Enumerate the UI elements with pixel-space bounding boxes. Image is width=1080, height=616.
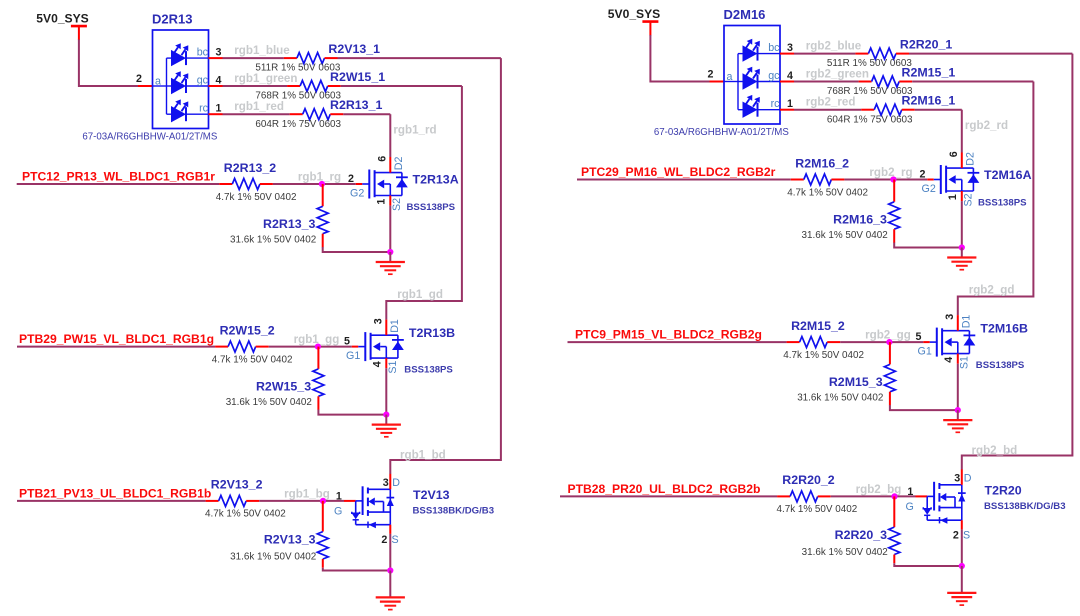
wire LED row to resistor [794, 109, 861, 111]
svg-text:R2M16_1: R2M16_1 [902, 94, 956, 108]
resistor R2M15_1 [859, 76, 913, 87]
svg-text:T2R13B: T2R13B [409, 326, 455, 340]
wire node to ground [385, 415, 387, 425]
svg-text:rgb1_red: rgb1_red [234, 100, 284, 113]
svg-text:2: 2 [136, 73, 142, 85]
wire net rgb2_gd vertical [958, 82, 1034, 316]
junction source-gnd [955, 407, 961, 413]
svg-text:rgb2_rg: rgb2_rg [869, 166, 912, 179]
svg-text:5V0_SYS: 5V0_SYS [36, 12, 88, 26]
junction rgb2_bg [891, 493, 897, 499]
svg-text:rgb2_gd: rgb2_gd [969, 283, 1015, 296]
svg-text:S: S [963, 530, 970, 542]
svg-text:BSS138PS: BSS138PS [976, 360, 1025, 371]
svg-text:1: 1 [376, 199, 388, 205]
svg-text:R2M15_1: R2M15_1 [902, 65, 956, 79]
svg-text:rgb1_bd: rgb1_bd [400, 449, 446, 462]
drain pin of T2M16B [957, 315, 959, 331]
wire LED row to resistor [223, 85, 288, 87]
junction source-gnd [383, 412, 389, 418]
svg-text:604R 1% 75V 0603: 604R 1% 75V 0603 [827, 114, 913, 125]
svg-text:31.6k 1% 50V 0402: 31.6k 1% 50V 0402 [230, 235, 316, 246]
svg-text:R2W15_2: R2W15_2 [220, 324, 275, 338]
source pin of T2V13 [389, 525, 391, 534]
junction source-gnd [959, 244, 965, 250]
svg-text:T2R13A: T2R13A [413, 173, 459, 187]
transistor T2R20 body [916, 469, 966, 529]
transistor T2R13A body [356, 157, 408, 206]
svg-text:4: 4 [943, 357, 955, 363]
wire node to ground [961, 248, 963, 258]
svg-text:R2W15_1: R2W15_1 [330, 70, 385, 84]
svg-text:T2M16A: T2M16A [984, 168, 1032, 182]
LED D2M16 element 3 [743, 95, 781, 118]
svg-text:rgb1_rg: rgb1_rg [298, 170, 341, 183]
svg-text:rgb1_blue: rgb1_blue [234, 44, 290, 57]
wire power to LED pin 2 [79, 40, 138, 87]
source pin of T2R13A [389, 196, 391, 206]
svg-text:2: 2 [348, 173, 354, 185]
svg-text:rc: rc [771, 98, 781, 110]
wire source to ground node [389, 206, 391, 252]
svg-text:R2V13_1: R2V13_1 [328, 42, 380, 56]
svg-text:PTB29_PW15_VL_BLDC1_RGB1g: PTB29_PW15_VL_BLDC1_RGB1g [19, 332, 214, 346]
svg-text:bc: bc [197, 47, 209, 59]
ground T2M16A [947, 258, 976, 270]
wire pulldown to source node [890, 405, 958, 410]
ground T2R13B [372, 425, 401, 437]
pin stub of D2R13 [209, 85, 223, 87]
svg-text:bc: bc [768, 42, 780, 54]
source pin of T2R13B [385, 358, 387, 368]
svg-text:1: 1 [907, 486, 913, 498]
wire R2M15_1 to drain column [912, 81, 1033, 83]
svg-text:PTB28_PR20_UL_BLDC2_RGB2b: PTB28_PR20_UL_BLDC2_RGB2b [568, 482, 761, 496]
svg-text:4.7k 1% 50V 0402: 4.7k 1% 50V 0402 [787, 187, 868, 198]
LED D2R13 element 2 [171, 71, 209, 94]
wire source to ground node [385, 368, 387, 414]
power symbol 5V0_SYS PWR-L [36, 12, 88, 40]
junction source-gnd [387, 567, 393, 573]
svg-text:rgb2_bd: rgb2_bd [972, 444, 1018, 457]
source pin of T2M16B [957, 354, 959, 364]
svg-text:rgb2_blue: rgb2_blue [806, 40, 862, 53]
wire net rgb2_bd vertical [962, 54, 1073, 470]
resistor R2R13_2 [219, 179, 273, 190]
svg-text:D: D [964, 472, 972, 484]
svg-text:rgb1_rd: rgb1_rd [393, 123, 436, 136]
ground T2R13A [376, 262, 405, 274]
wire node to ground [961, 566, 963, 593]
svg-text:R2R13_1: R2R13_1 [330, 98, 382, 112]
resistor R2M16_1 [861, 104, 915, 115]
wire node to ground [389, 571, 391, 598]
wire LED row to resistor [794, 81, 859, 83]
svg-text:1: 1 [947, 194, 959, 200]
LED D2M16 element 1 [743, 39, 781, 62]
svg-text:4.7k 1% 50V 0402: 4.7k 1% 50V 0402 [783, 350, 864, 361]
svg-text:PTB21_PV13_UL_BLDC1_RGB1b: PTB21_PV13_UL_BLDC1_RGB1b [19, 486, 211, 500]
svg-text:PTC12_PR13_WL_BLDC1_RGB1r: PTC12_PR13_WL_BLDC1_RGB1r [22, 169, 215, 183]
wire net rgb1_bd vertical [390, 58, 501, 474]
resistor R2W15_2 [215, 341, 269, 352]
svg-text:D2: D2 [965, 152, 977, 166]
svg-text:S: S [392, 534, 399, 546]
svg-text:4.7k 1% 50V 0402: 4.7k 1% 50V 0402 [777, 504, 858, 515]
wire pulldown to source node [318, 410, 386, 415]
junction rgb2_rg [890, 176, 896, 182]
wire net rgb1_rd vertical [389, 114, 391, 157]
svg-text:R2R20_1: R2R20_1 [900, 38, 952, 52]
pin stub of D2M16 [780, 109, 794, 111]
svg-text:604R 1% 75V 0603: 604R 1% 75V 0603 [255, 119, 341, 130]
wire input to resistor R2M15_2 [568, 341, 787, 343]
source pin of T2R20 [961, 520, 963, 529]
wire resistor to gate [269, 346, 352, 348]
svg-text:6: 6 [948, 151, 960, 157]
svg-text:BSS138BK/DG/B3: BSS138BK/DG/B3 [413, 505, 495, 516]
wire input to resistor R2R20_2 [560, 495, 777, 497]
wire net rgb2_rd vertical [961, 110, 963, 153]
drain pin of T2R13A [389, 157, 391, 173]
svg-text:R2M15_2: R2M15_2 [791, 319, 845, 333]
resistor R2R20_2 [777, 491, 831, 502]
svg-text:3: 3 [944, 314, 956, 320]
pin 2 stub of D2R13 [138, 85, 153, 87]
svg-text:PTC29_PM16_WL_BLDC2_RGB2r: PTC29_PM16_WL_BLDC2_RGB2r [581, 165, 776, 179]
resistor R2M15_2 [787, 337, 841, 348]
drain pin of T2R20 [961, 469, 963, 484]
drain pin of T2R13B [385, 320, 387, 336]
pin stub of D2M16 [780, 81, 794, 83]
junction rgb1_gg [315, 344, 321, 350]
svg-text:D2: D2 [393, 156, 405, 170]
svg-text:BSS138BK/DG/B3: BSS138BK/DG/B3 [984, 501, 1066, 512]
svg-text:rgb2_green: rgb2_green [806, 67, 869, 80]
svg-text:67-03A/R6GHBHW-A01/2T/MS: 67-03A/R6GHBHW-A01/2T/MS [654, 127, 789, 138]
svg-text:D: D [392, 477, 400, 489]
resistor R2W15_3 [313, 347, 324, 410]
svg-text:R2R13_2: R2R13_2 [224, 161, 276, 175]
wire net rgb1_gd vertical [386, 86, 462, 320]
transistor T2R13B body [352, 320, 404, 369]
svg-text:a: a [727, 71, 733, 83]
svg-text:T2R20: T2R20 [985, 484, 1022, 498]
svg-text:D2R13: D2R13 [152, 12, 192, 27]
svg-text:D2M16: D2M16 [724, 7, 766, 22]
junction rgb2_gg [886, 339, 892, 345]
pin stub of D2R13 [209, 113, 223, 115]
svg-text:1: 1 [336, 491, 342, 503]
junction source-gnd [959, 563, 965, 569]
svg-text:rgb2_red: rgb2_red [806, 96, 856, 109]
wire node to ground [389, 252, 391, 262]
svg-text:3: 3 [787, 42, 793, 54]
LED package D2M16 body [724, 26, 780, 125]
svg-text:S2: S2 [963, 193, 975, 206]
ground T2V13 [376, 597, 405, 609]
transistor T2M16B body [923, 315, 975, 364]
svg-text:rc: rc [199, 103, 209, 115]
wire input to resistor R2M16_2 [577, 179, 791, 181]
wire R2R20_1 to drain column [909, 53, 1072, 55]
wire R2W15_1 to drain column [341, 85, 462, 87]
svg-text:6: 6 [377, 156, 389, 162]
source pin of T2M16A [961, 191, 963, 201]
svg-text:R2M15_3: R2M15_3 [829, 375, 883, 389]
svg-text:G: G [334, 506, 342, 518]
LED D2R13 element 1 [171, 43, 209, 66]
svg-text:S1: S1 [959, 356, 971, 369]
resistor R2R20_3 [889, 496, 900, 563]
svg-text:D1: D1 [389, 319, 401, 333]
svg-text:G1: G1 [346, 350, 360, 362]
wire LED row to resistor [223, 113, 290, 115]
svg-text:2: 2 [381, 534, 387, 546]
svg-text:3: 3 [954, 472, 960, 484]
svg-text:3: 3 [373, 318, 385, 324]
wire source to ground node [961, 201, 963, 247]
svg-text:G1: G1 [918, 345, 932, 357]
junction rgb1_rg [319, 181, 325, 187]
pin stub of D2M16 [780, 53, 794, 55]
wire R2R13_1 to drain column [343, 113, 390, 115]
svg-text:1: 1 [787, 98, 793, 110]
svg-text:R2V13_3: R2V13_3 [264, 533, 316, 547]
resistor R2M15_3 [884, 342, 895, 405]
svg-text:S2: S2 [391, 198, 403, 211]
svg-text:67-03A/R6GHBHW-A01/2T/MS: 67-03A/R6GHBHW-A01/2T/MS [82, 132, 217, 143]
drain pin of T2M16A [961, 153, 963, 169]
wire pulldown to source node [323, 247, 391, 252]
ground T2M16B [943, 420, 972, 432]
svg-text:4.7k 1% 50V 0402: 4.7k 1% 50V 0402 [205, 508, 286, 519]
svg-text:R2M16_2: R2M16_2 [795, 157, 849, 171]
svg-text:31.6k 1% 50V 0402: 31.6k 1% 50V 0402 [226, 397, 312, 408]
svg-text:5: 5 [916, 331, 922, 343]
svg-text:S1: S1 [387, 360, 399, 373]
wire resistor to gate [259, 500, 344, 502]
wire input to resistor R2W15_2 [17, 346, 215, 348]
svg-text:4: 4 [372, 361, 384, 367]
resistor R2V13_3 [317, 501, 328, 568]
svg-text:BSS138PS: BSS138PS [404, 365, 453, 376]
wire resistor to gate [273, 183, 356, 185]
resistor R2R20_1 [855, 48, 909, 59]
svg-text:4: 4 [787, 70, 793, 82]
power symbol 5V0_SYS PWR-R [608, 7, 660, 35]
svg-text:rgb1_gd: rgb1_gd [397, 288, 443, 301]
drain pin of T2V13 [389, 474, 391, 489]
svg-text:31.6k 1% 50V 0402: 31.6k 1% 50V 0402 [802, 547, 888, 558]
wire pulldown to source node [894, 563, 962, 566]
svg-text:R2W15_3: R2W15_3 [256, 380, 311, 394]
svg-text:R2R20_2: R2R20_2 [782, 473, 834, 487]
wire source to ground node [961, 529, 963, 566]
svg-text:1: 1 [216, 103, 222, 115]
svg-text:4.7k 1% 50V 0402: 4.7k 1% 50V 0402 [216, 192, 297, 203]
transistor T2V13 body [344, 474, 394, 534]
svg-text:gc: gc [768, 70, 780, 82]
wire pulldown to source node [894, 243, 962, 248]
svg-text:R2R13_3: R2R13_3 [263, 217, 315, 231]
svg-text:PTC9_PM15_VL_BLDC2_RGB2g: PTC9_PM15_VL_BLDC2_RGB2g [575, 328, 762, 342]
wire resistor to gate [831, 495, 916, 497]
transistor T2M16A body [927, 153, 979, 202]
wire node to ground [957, 410, 959, 420]
svg-text:T2V13: T2V13 [413, 488, 450, 502]
LED D2M16 element 2 [743, 67, 781, 90]
svg-text:5V0_SYS: 5V0_SYS [608, 7, 660, 21]
junction rgb1_bg [320, 498, 326, 504]
resistor R2M16_2 [791, 174, 845, 185]
svg-text:31.6k 1% 50V 0402: 31.6k 1% 50V 0402 [230, 552, 316, 563]
svg-text:2: 2 [920, 168, 926, 180]
wire input to resistor R2V13_2 [17, 500, 206, 502]
svg-text:BSS138PS: BSS138PS [407, 202, 456, 213]
svg-text:3: 3 [383, 477, 389, 489]
pin stub of D2R13 [209, 57, 223, 59]
svg-text:4: 4 [216, 75, 222, 87]
wire source to ground node [957, 364, 959, 410]
wire input to resistor R2R13_2 [17, 183, 220, 185]
wire source to ground node [389, 534, 391, 571]
resistor R2M16_3 [889, 180, 900, 243]
svg-text:R2V13_2: R2V13_2 [211, 478, 263, 492]
svg-text:31.6k 1% 50V 0402: 31.6k 1% 50V 0402 [797, 393, 883, 404]
svg-text:G: G [906, 501, 914, 513]
resistor R2R13_1 [290, 109, 344, 120]
wire LED row to resistor [794, 53, 855, 55]
svg-text:31.6k 1% 50V 0402: 31.6k 1% 50V 0402 [802, 230, 888, 241]
junction source-gnd [387, 249, 393, 255]
svg-text:rgb2_rd: rgb2_rd [965, 119, 1008, 132]
svg-text:rgb1_green: rgb1_green [234, 72, 297, 85]
svg-text:D1: D1 [961, 315, 973, 329]
resistor R2W15_1 [287, 81, 341, 92]
pin 2 stub of D2M16 [710, 81, 725, 83]
svg-text:a: a [155, 76, 161, 88]
svg-text:2: 2 [708, 69, 714, 81]
wire R2V13_1 to drain column [338, 57, 501, 59]
resistor R2V13_2 [206, 495, 260, 506]
svg-text:3: 3 [216, 47, 222, 59]
svg-text:G2: G2 [350, 187, 364, 199]
LED package D2R13 body [153, 30, 209, 129]
wire resistor to gate [840, 341, 923, 343]
svg-text:gc: gc [197, 75, 209, 87]
resistor R2R13_3 [317, 184, 328, 247]
svg-text:2: 2 [953, 530, 959, 542]
wire power to LED pin 2 [650, 35, 709, 82]
svg-text:R2M16_3: R2M16_3 [833, 213, 887, 227]
svg-text:T2M16B: T2M16B [980, 321, 1028, 335]
wire R2M16_1 to drain column [915, 109, 962, 111]
svg-text:G2: G2 [922, 183, 936, 195]
LED D2R13 element 3 [171, 99, 209, 122]
wire resistor to gate [844, 179, 927, 181]
wire LED row to resistor [223, 57, 284, 59]
ground T2R20 [947, 593, 976, 605]
resistor R2V13_1 [284, 53, 338, 64]
wire pulldown to source node [323, 568, 391, 571]
svg-text:5: 5 [344, 335, 350, 347]
svg-text:BSS138PS: BSS138PS [978, 198, 1027, 209]
svg-text:4.7k 1% 50V 0402: 4.7k 1% 50V 0402 [212, 354, 293, 365]
svg-text:R2R20_3: R2R20_3 [835, 528, 887, 542]
